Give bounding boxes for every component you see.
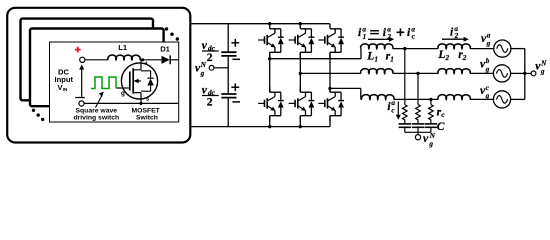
wire to vgN right terminal xyxy=(525,72,531,74)
gate square wave (green) xyxy=(91,77,116,89)
phase a line to source xyxy=(470,48,494,50)
phase c to right bus xyxy=(511,98,525,100)
tap a junction dot xyxy=(403,47,406,50)
source junction dot xyxy=(139,102,142,105)
phase a to right bus xyxy=(511,48,525,50)
plus mark cap2 xyxy=(231,83,239,91)
inductor L2 phase c xyxy=(438,95,470,100)
phase b line to source xyxy=(470,72,494,74)
minus mark cap2 xyxy=(232,101,240,103)
IGBT S3 upper leg b xyxy=(289,24,315,58)
dc bottom rail xyxy=(190,126,330,128)
wire diode to card edge xyxy=(170,59,179,61)
svg-text:2: 2 xyxy=(462,54,467,62)
wire vgN to bus xyxy=(214,67,228,69)
grid source vga xyxy=(494,40,511,57)
phase a line L1 to L2 xyxy=(393,48,439,50)
grid source vgb xyxy=(493,65,510,82)
IGBT S6 lower leg b xyxy=(289,87,315,121)
svg-text:Square wave: Square wave xyxy=(76,107,118,114)
svg-text:s: s xyxy=(146,96,150,103)
svg-text:L1: L1 xyxy=(118,43,128,52)
inductor L2 phase b xyxy=(438,69,470,74)
inductor L2 phase a xyxy=(438,44,470,49)
stacked module card A xyxy=(21,19,154,101)
MOSFET gate wire xyxy=(116,87,130,89)
phase c line to source xyxy=(470,98,494,100)
phase c line to filter xyxy=(330,88,361,99)
svg-text:a: a xyxy=(487,31,491,39)
svg-text:L: L xyxy=(437,49,445,61)
phase a line to filter xyxy=(270,49,361,59)
phase b node dot xyxy=(299,72,302,75)
phase b line to filter xyxy=(300,72,361,74)
svg-text:driving switch: driving switch xyxy=(74,115,120,122)
wire L1 to diode xyxy=(140,59,162,61)
diode D1 xyxy=(162,56,170,64)
svg-text:g: g xyxy=(200,69,205,77)
ellipsis dots top-right xyxy=(165,27,179,40)
leg a midpoint vertical xyxy=(269,52,271,92)
phase c line L1 to L2 xyxy=(394,98,439,100)
IGBT S4 lower leg a xyxy=(258,87,284,121)
node d junction dot xyxy=(141,58,144,61)
capacitor branch a vertical xyxy=(404,49,406,105)
DC input negative terminal xyxy=(79,101,84,106)
svg-text:MOSFET: MOSFET xyxy=(132,107,161,114)
terminal vgN right xyxy=(531,71,536,76)
inductor L1 (boost) xyxy=(108,55,140,60)
svg-text:C: C xyxy=(437,121,445,133)
leg b midpoint vertical xyxy=(299,52,301,92)
lower joins to bottom rail xyxy=(270,116,330,127)
right bus dot xyxy=(523,72,526,75)
svg-text:g: g xyxy=(121,90,125,97)
svg-text:N: N xyxy=(429,132,436,140)
svg-text:1: 1 xyxy=(363,33,367,41)
svg-text:v: v xyxy=(202,40,208,52)
tap c junction dot xyxy=(429,98,432,101)
rail junction dots xyxy=(268,22,302,128)
capacitor Cdc1 xyxy=(221,52,236,56)
capacitor Cdc2 xyxy=(221,94,236,98)
svg-text:g: g xyxy=(485,92,490,100)
svg-text:g: g xyxy=(428,140,433,148)
svg-text:g: g xyxy=(485,65,490,73)
dc top rail xyxy=(190,23,330,25)
Vin arrow xyxy=(81,67,83,97)
damping resistor + cap branch b xyxy=(412,105,424,133)
svg-text:2: 2 xyxy=(207,52,213,64)
outer enclosure of PV/boost stack xyxy=(7,8,190,143)
MOSFET channel bar xyxy=(132,68,134,94)
svg-text:g: g xyxy=(540,68,545,76)
ellipsis dots bottom-left xyxy=(32,109,45,122)
IGBT S5 upper leg c xyxy=(318,24,344,58)
IGBT S1 upper leg a xyxy=(258,24,284,58)
MOSFET body stub with arrow xyxy=(138,80,142,82)
svg-text:g: g xyxy=(486,40,491,48)
plus polarity mark (red) xyxy=(75,47,81,53)
tap b junction dot xyxy=(416,72,419,75)
right neutral bus xyxy=(524,49,526,100)
bottom wire xyxy=(84,102,179,104)
MOSFET gate bar xyxy=(129,72,131,91)
stub to vgN bottom terminal xyxy=(417,132,419,134)
front converter card xyxy=(50,42,179,122)
plus mark cap1 xyxy=(231,39,239,47)
svg-text:Switch: Switch xyxy=(136,115,158,122)
svg-text:D1: D1 xyxy=(160,45,170,54)
svg-text:2: 2 xyxy=(445,54,450,62)
svg-text:L: L xyxy=(366,50,374,62)
MOSFET switch circle Q1 xyxy=(121,63,157,99)
DC input positive terminal xyxy=(80,57,85,62)
dc-link bus vertical xyxy=(227,24,229,127)
pointer arrow to waveform xyxy=(96,95,103,108)
MOSFET source stub xyxy=(133,93,141,104)
phase b to right bus xyxy=(511,72,525,74)
MOSFET drain wire xyxy=(133,60,141,70)
terminal vgN bottom xyxy=(415,135,420,140)
svg-text:N: N xyxy=(540,59,547,67)
leg c midpoint vertical xyxy=(329,52,331,92)
wire top to L1 xyxy=(85,59,108,61)
svg-text:N: N xyxy=(200,61,207,69)
damping resistor + cap branch a xyxy=(399,105,411,133)
phase c node dot xyxy=(328,87,331,90)
MOSFET body diode xyxy=(141,71,151,91)
svg-text:b: b xyxy=(486,57,490,65)
inductor L1 phase b xyxy=(361,69,393,74)
phase a node dot xyxy=(268,57,271,60)
svg-text:1: 1 xyxy=(390,55,394,63)
svg-text:v: v xyxy=(202,85,208,97)
damping resistor + cap branch c xyxy=(425,105,437,133)
terminal vgN left xyxy=(209,65,214,70)
IGBT S2 lower leg c xyxy=(318,87,344,121)
inductor L1 phase a xyxy=(361,44,393,49)
inductor L1 phase c xyxy=(362,95,394,100)
capacitor branch b vertical xyxy=(417,73,419,104)
svg-text:1: 1 xyxy=(374,55,378,63)
minus mark cap1 xyxy=(232,58,240,60)
arrow i1 xyxy=(368,38,391,40)
grid source vgc xyxy=(493,91,510,108)
phase b line L1 to L2 xyxy=(393,72,439,74)
svg-text:2: 2 xyxy=(207,96,213,108)
capacitor branch c vertical xyxy=(430,99,432,104)
svg-text:v: v xyxy=(423,133,429,145)
stacked module card B xyxy=(30,29,164,107)
capacitor common bus xyxy=(405,131,431,133)
